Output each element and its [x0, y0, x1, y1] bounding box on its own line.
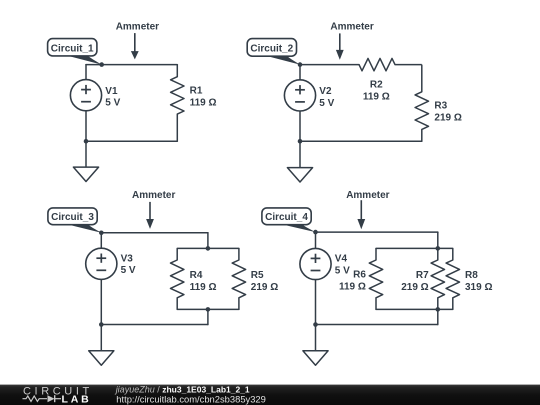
- ground c2: [287, 141, 312, 182]
- resistor R3: [415, 65, 428, 142]
- ammeter c1 arrow: [131, 33, 139, 59]
- node c4 bottom junction: [313, 322, 318, 327]
- wire c3 bottom rise: [207, 309, 209, 324]
- wire c4 top drop to parallel: [437, 232, 439, 248]
- node c2 bottom junction: [298, 139, 303, 144]
- svg-text:5 V: 5 V: [335, 265, 350, 276]
- wire c4 parallel bottom rail: [376, 308, 453, 310]
- svg-text:Circuit_3: Circuit_3: [51, 212, 94, 223]
- circuit 1: [48, 21, 217, 181]
- wire c3 source top lead: [100, 233, 102, 248]
- resistor R4: [171, 248, 184, 309]
- footer logo CIRCUIT: [23, 386, 93, 398]
- wire c3 source bottom lead: [100, 279, 102, 324]
- svg-text:319 Ω: 319 Ω: [465, 282, 492, 293]
- wire c1 top: [86, 64, 177, 66]
- svg-text:219 Ω: 219 Ω: [251, 282, 278, 293]
- node c3 bottom junction: [99, 322, 104, 327]
- svg-text:R1: R1: [190, 86, 203, 97]
- svg-text:Circuit_2: Circuit_2: [250, 44, 293, 55]
- resistor R6: [369, 248, 382, 309]
- node c3 parallel bottom junction: [206, 307, 211, 312]
- svg-text:5 V: 5 V: [105, 98, 120, 109]
- resistor R7 value label: [401, 270, 429, 293]
- voltage source V1: [70, 80, 120, 111]
- resistor R5 value label: [251, 270, 278, 293]
- node c1 top (probe point): [99, 62, 104, 67]
- resistor R3 value label: [434, 101, 461, 124]
- ammeter c2 label: [330, 21, 373, 32]
- svg-text:Ammeter: Ammeter: [330, 21, 373, 32]
- footer logo symbol (resistor + diode): [23, 395, 62, 402]
- svg-text:Ammeter: Ammeter: [116, 21, 159, 32]
- wire c4 source top lead: [315, 232, 317, 248]
- svg-text:R8: R8: [465, 270, 478, 281]
- svg-text:Circuit_4: Circuit_4: [265, 212, 308, 223]
- svg-text:LAB: LAB: [62, 393, 92, 405]
- svg-text:5 V: 5 V: [319, 98, 334, 109]
- wire c1 bottom: [86, 140, 177, 142]
- wire c4 parallel top rail: [376, 247, 453, 249]
- svg-text:Circuit_1: Circuit_1: [51, 43, 94, 54]
- resistor R2 value label: [363, 79, 390, 102]
- svg-text:Ammeter: Ammeter: [346, 190, 389, 201]
- wire c2 bottom: [300, 140, 422, 142]
- flag Circuit_4: [262, 208, 316, 232]
- svg-text:V3: V3: [121, 254, 134, 265]
- svg-text:5 V: 5 V: [121, 265, 136, 276]
- wire c3 bottom: [101, 324, 208, 326]
- node c3 top (probe point): [99, 231, 104, 236]
- wire c3 parallel top rail: [177, 247, 239, 249]
- wire c2 source bottom lead: [299, 111, 301, 141]
- svg-text:R3: R3: [434, 101, 447, 112]
- resistor R7: [431, 248, 444, 309]
- svg-text:R6: R6: [353, 270, 366, 281]
- svg-text:R4: R4: [190, 270, 203, 281]
- svg-text:Ammeter: Ammeter: [132, 190, 175, 201]
- svg-text:V2: V2: [319, 86, 332, 97]
- flag Circuit_1: [48, 39, 102, 65]
- ammeter c2 arrow: [336, 33, 344, 59]
- ground c4: [303, 325, 328, 366]
- wire c2 source top lead: [299, 65, 301, 80]
- ammeter c3 arrow: [146, 202, 154, 229]
- node c4 parallel top junction: [436, 246, 441, 251]
- resistor R1 value label: [190, 86, 217, 109]
- resistor R1: [171, 65, 184, 142]
- svg-text:R5: R5: [251, 270, 264, 281]
- resistor R8 value label: [465, 270, 492, 293]
- wire c4 source bottom lead: [315, 280, 317, 325]
- flag Circuit_2: [247, 39, 300, 65]
- circuit 3: [48, 190, 278, 365]
- wire c4 bottom rise: [437, 309, 439, 324]
- svg-text:219 Ω: 219 Ω: [401, 282, 428, 293]
- footer url line: [116, 393, 266, 404]
- footer logo LAB: [62, 393, 92, 405]
- resistor R6 value label: [339, 270, 366, 293]
- ammeter c1 label: [116, 21, 159, 32]
- svg-text:119 Ω: 119 Ω: [190, 282, 217, 293]
- resistor R5: [232, 248, 245, 309]
- voltage source V2: [284, 80, 334, 111]
- svg-text:R2: R2: [370, 79, 383, 90]
- resistor R2: [359, 58, 422, 70]
- footer bar: [0, 385, 540, 405]
- svg-text:V4: V4: [335, 254, 348, 265]
- voltage source V3: [86, 248, 136, 279]
- resistor R8: [446, 248, 459, 309]
- svg-text:119 Ω: 119 Ω: [339, 282, 366, 293]
- svg-text:219 Ω: 219 Ω: [434, 113, 461, 124]
- wire c3 top drop to parallel: [207, 233, 209, 249]
- ammeter c4 arrow: [357, 200, 365, 229]
- node c1 bottom junction: [84, 139, 89, 144]
- ammeter c3 label: [132, 190, 175, 201]
- svg-text:119 Ω: 119 Ω: [190, 98, 217, 109]
- flag Circuit_3: [48, 208, 101, 233]
- wire c1 left top (source top lead): [85, 65, 87, 80]
- node c4 parallel bottom junction: [436, 307, 441, 312]
- wire c3 parallel bottom rail: [177, 308, 239, 310]
- wire c1 left bottom (source bottom lead): [85, 111, 87, 142]
- circuit 2: [247, 21, 462, 182]
- footer title line: [115, 385, 250, 395]
- resistor R4 value label: [190, 270, 217, 293]
- svg-text:119 Ω: 119 Ω: [363, 91, 390, 102]
- node c3 parallel top junction: [206, 246, 211, 251]
- node c4 top (probe point): [313, 230, 318, 235]
- svg-text:R7: R7: [416, 270, 429, 281]
- ammeter c4 label: [346, 190, 389, 201]
- voltage source V4: [300, 248, 350, 279]
- wire c3 top: [101, 232, 208, 234]
- wire c4 top: [316, 231, 438, 233]
- node c2 top (probe point): [298, 62, 303, 67]
- ground c3: [89, 325, 114, 366]
- svg-text:http://circuitlab.com/cbn2sb38: http://circuitlab.com/cbn2sb385y329: [116, 393, 266, 404]
- wire c4 bottom: [316, 324, 438, 326]
- ground c1: [73, 141, 98, 181]
- wire c2 top left: [300, 64, 359, 66]
- circuit 4: [262, 190, 493, 365]
- svg-text:V1: V1: [105, 86, 118, 97]
